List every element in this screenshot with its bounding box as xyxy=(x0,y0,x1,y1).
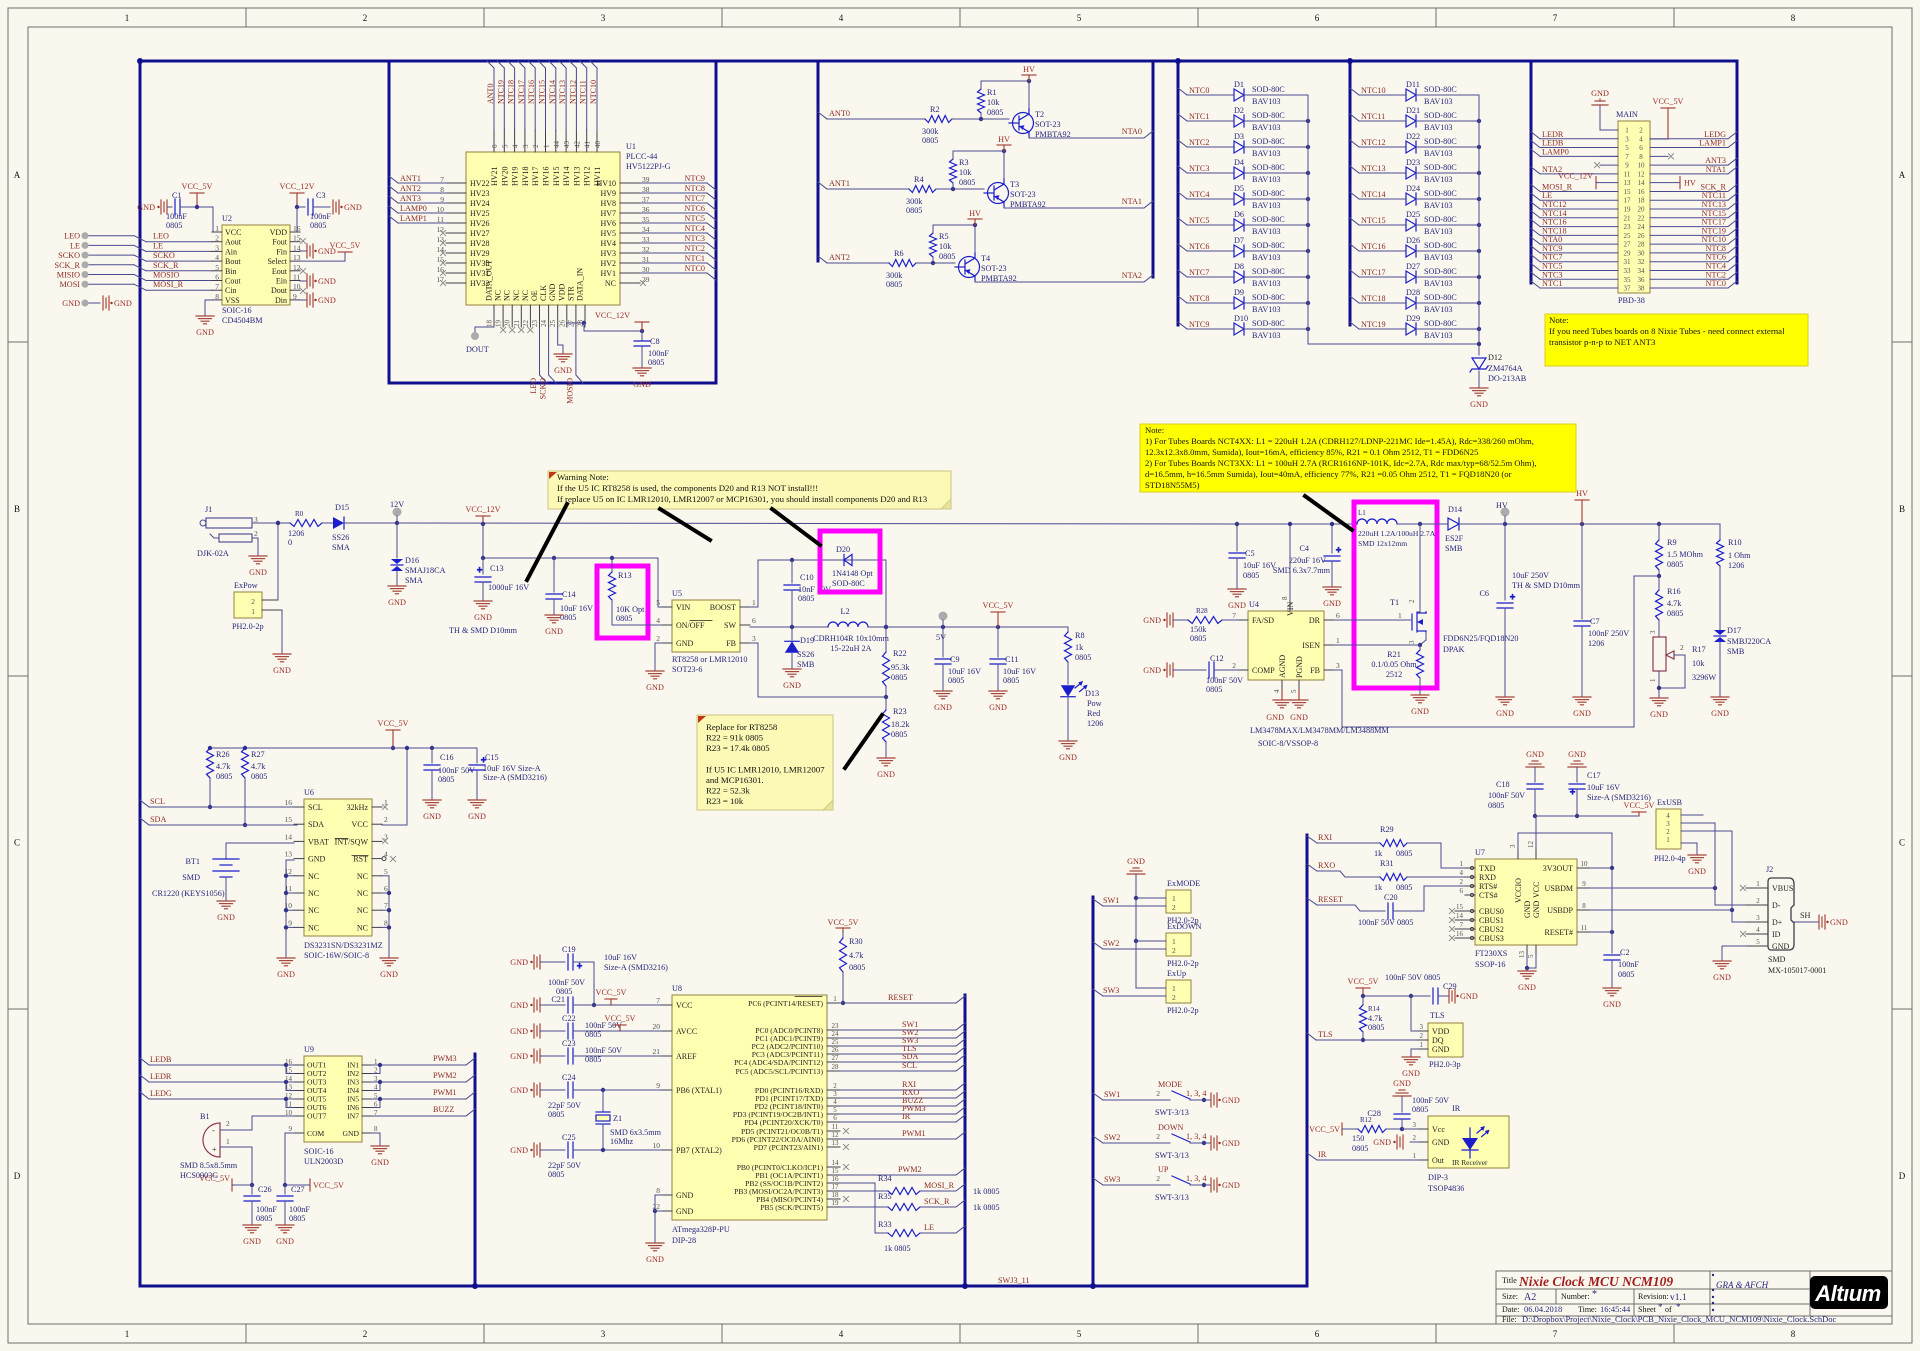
U6 INT RST NC xyxy=(382,838,387,843)
svg-text:NTC12: NTC12 xyxy=(1361,138,1386,147)
wire DR to gate xyxy=(1334,619,1412,621)
svg-text:10uF 16V: 10uF 16V xyxy=(1587,783,1620,792)
svg-text:ANT3: ANT3 xyxy=(400,194,421,203)
svg-text:SH: SH xyxy=(1800,911,1811,920)
svg-text:T4: T4 xyxy=(981,254,990,263)
svg-text:GND: GND xyxy=(1688,867,1706,876)
svg-text:C1: C1 xyxy=(172,191,182,200)
svg-text:GND: GND xyxy=(1059,753,1077,762)
svg-text:B1: B1 xyxy=(200,1112,210,1121)
svg-text:NTC2: NTC2 xyxy=(1706,270,1726,279)
svg-text:NTC4: NTC4 xyxy=(1706,261,1726,270)
svg-text:+: + xyxy=(577,961,582,971)
svg-text:5: 5 xyxy=(1625,144,1629,152)
svg-text:C11: C11 xyxy=(1005,655,1018,664)
inductor L2 CDRH104R xyxy=(813,607,889,653)
svg-text:HV16: HV16 xyxy=(542,166,551,186)
svg-text:SDA: SDA xyxy=(902,1052,918,1061)
svg-text:C5: C5 xyxy=(1245,549,1255,558)
svg-text:VCC_5V: VCC_5V xyxy=(1653,97,1684,106)
svg-text:GND: GND xyxy=(1290,713,1308,722)
svg-text:SOD-80C: SOD-80C xyxy=(1252,267,1285,276)
svg-text:NTC14: NTC14 xyxy=(548,80,557,104)
wire HV rail xyxy=(1459,522,1720,526)
svg-text:T3: T3 xyxy=(1010,180,1019,189)
resistor R21 0.1/0.05 Ohm xyxy=(1371,645,1429,716)
svg-text:SMA: SMA xyxy=(405,576,423,585)
svg-text:4: 4 xyxy=(1756,926,1760,934)
title block xyxy=(1496,1271,1892,1324)
wire ExPow pin2 to rail xyxy=(276,521,280,600)
svg-text:C6: C6 xyxy=(1479,589,1489,598)
svg-text:Cout: Cout xyxy=(225,277,241,286)
svg-text:0805: 0805 xyxy=(1396,849,1412,858)
svg-text:HV4: HV4 xyxy=(600,239,616,248)
U5 GND pin to ground xyxy=(646,643,664,692)
svg-text:TLS: TLS xyxy=(1430,1011,1445,1020)
svg-text:CBUS3: CBUS3 xyxy=(1479,934,1504,943)
svg-text:LEDG: LEDG xyxy=(1704,130,1726,139)
svg-text:19: 19 xyxy=(495,320,503,328)
svg-text:Size-A (SMD3216): Size-A (SMD3216) xyxy=(604,963,668,972)
svg-text:0805: 0805 xyxy=(891,730,907,739)
svg-text:0: 0 xyxy=(288,538,292,547)
svg-text:41: 41 xyxy=(584,141,592,149)
svg-text:D29: D29 xyxy=(1406,314,1420,323)
section border top edge xyxy=(140,60,1737,63)
svg-text:NTC9: NTC9 xyxy=(1189,320,1209,329)
svg-text:1N4148 Opt: 1N4148 Opt xyxy=(832,569,873,578)
svg-text:Ein: Ein xyxy=(276,277,287,286)
svg-text:GND: GND xyxy=(510,1146,528,1155)
svg-text:GND: GND xyxy=(1573,709,1591,718)
svg-text:RXD: RXD xyxy=(1479,873,1496,882)
svg-text:GND: GND xyxy=(62,299,80,308)
svg-text:+: + xyxy=(477,565,482,575)
net NTA0 output xyxy=(1029,127,1153,138)
wire rail drop to C13 row xyxy=(481,524,658,560)
svg-text:D-: D- xyxy=(1772,901,1781,910)
svg-text:30: 30 xyxy=(1638,249,1646,257)
svg-text:HV6: HV6 xyxy=(600,219,616,228)
svg-text:NTC8: NTC8 xyxy=(1706,244,1726,253)
svg-text:2: 2 xyxy=(1639,127,1643,135)
crystal Z1 16MHz xyxy=(596,1090,662,1150)
svg-text:13: 13 xyxy=(832,1139,840,1147)
svg-text:NTC7: NTC7 xyxy=(1189,268,1209,277)
svg-text:1206: 1206 xyxy=(288,529,304,538)
svg-text:SW1: SW1 xyxy=(1104,1090,1120,1099)
svg-text:MX-105017-0001: MX-105017-0001 xyxy=(1768,966,1826,975)
svg-text:100nF: 100nF xyxy=(310,212,331,221)
MCU bus border xyxy=(964,995,967,1286)
svg-text:HV5122PJ-G: HV5122PJ-G xyxy=(626,162,671,171)
svg-text:1206: 1206 xyxy=(1588,639,1604,648)
svg-text:HV24: HV24 xyxy=(470,199,490,208)
svg-text:GND: GND xyxy=(1650,710,1668,719)
svg-text:PH2.0-3p: PH2.0-3p xyxy=(1429,1060,1461,1069)
svg-text:5: 5 xyxy=(215,263,219,272)
svg-text:A: A xyxy=(1899,170,1906,180)
svg-text:R22 = 91k 0805: R22 = 91k 0805 xyxy=(706,733,764,743)
svg-text:BT1: BT1 xyxy=(185,857,200,866)
svg-text:PLCC-44: PLCC-44 xyxy=(626,152,657,161)
svg-text:C9: C9 xyxy=(950,655,960,664)
svg-text:0805: 0805 xyxy=(959,178,975,187)
svg-text:PWM1: PWM1 xyxy=(902,1129,926,1138)
svg-text:GND: GND xyxy=(676,639,694,648)
diode matrix block borders xyxy=(1178,61,1350,325)
svg-text:8: 8 xyxy=(1281,596,1289,600)
svg-text:1: 1 xyxy=(1420,1041,1424,1049)
note sticky - warning RT8258 xyxy=(548,471,951,509)
svg-text:CDRH104R 10x10mm: CDRH104R 10x10mm xyxy=(813,634,889,643)
svg-text:ZM4764A: ZM4764A xyxy=(1488,364,1523,373)
svg-text:0805: 0805 xyxy=(256,1214,272,1223)
wire SW rail xyxy=(750,625,828,629)
svg-text:RXO: RXO xyxy=(1318,861,1335,870)
svg-text:SOD-80C: SOD-80C xyxy=(1424,189,1457,198)
svg-text:0805: 0805 xyxy=(438,775,454,784)
capacitor C22 xyxy=(510,1014,594,1039)
svg-text:BAV103: BAV103 xyxy=(1252,279,1281,288)
section border bottom edge xyxy=(140,1285,1306,1288)
power port HV (T4) xyxy=(968,209,982,225)
svg-text:D23: D23 xyxy=(1406,158,1420,167)
svg-text:GND: GND xyxy=(380,970,398,979)
svg-text:7: 7 xyxy=(1460,921,1464,929)
net TLS wire (U8) xyxy=(840,1044,965,1054)
svg-text:HV17: HV17 xyxy=(531,166,540,186)
net SCL wire (U8) xyxy=(840,1061,965,1071)
svg-text:9: 9 xyxy=(288,918,292,927)
power port VCC_5V (TLS) xyxy=(1348,977,1379,998)
svg-text:NC: NC xyxy=(357,906,368,915)
svg-text:Revision:: Revision: xyxy=(1638,1292,1669,1301)
svg-text:HV14: HV14 xyxy=(562,166,571,186)
diode column 2 (D11-D29) xyxy=(1350,80,1481,355)
svg-text:T2: T2 xyxy=(1035,110,1044,119)
svg-text:NTC16: NTC16 xyxy=(1542,218,1567,227)
svg-text:15: 15 xyxy=(285,815,293,824)
svg-text:1k: 1k xyxy=(1374,883,1383,892)
svg-text:1: 1 xyxy=(125,13,130,23)
diode D14 ES2F SMB xyxy=(1445,505,1464,553)
svg-text:NTC4: NTC4 xyxy=(1189,190,1209,199)
svg-text:DPAK: DPAK xyxy=(1443,645,1465,654)
svg-text:NTA0: NTA0 xyxy=(1122,127,1142,136)
svg-text:D20: D20 xyxy=(836,545,850,554)
svg-text:CTS#: CTS# xyxy=(1479,891,1498,900)
svg-text:TXD: TXD xyxy=(1479,864,1496,873)
svg-text:GND: GND xyxy=(1568,750,1586,759)
svg-text:D16: D16 xyxy=(405,556,419,565)
resistor R33 + net LE xyxy=(840,1183,965,1253)
svg-text:2: 2 xyxy=(1156,1174,1160,1183)
svg-text:SS26: SS26 xyxy=(797,650,814,659)
svg-text:15: 15 xyxy=(1624,188,1632,196)
svg-text:D27: D27 xyxy=(1406,262,1420,271)
svg-text:220uH 1.2A/100uH 2.7A: 220uH 1.2A/100uH 2.7A xyxy=(1358,529,1436,538)
LED D13 Pow Red xyxy=(1059,681,1103,762)
svg-text:38: 38 xyxy=(1638,285,1646,293)
svg-text:GND: GND xyxy=(318,296,336,305)
svg-text:2: 2 xyxy=(1666,828,1670,836)
svg-text:GND: GND xyxy=(676,1191,694,1200)
svg-text:SCL: SCL xyxy=(150,797,165,806)
svg-text:SOD-80C: SOD-80C xyxy=(1252,137,1285,146)
ExUSB pin2 wire xyxy=(1681,831,1732,910)
svg-text:2: 2 xyxy=(1680,643,1684,652)
svg-text:32kHz: 32kHz xyxy=(347,803,369,812)
note sticky - tubes boards ANT3 xyxy=(1545,314,1808,366)
svg-text:Cin: Cin xyxy=(225,286,237,295)
svg-text:Fout: Fout xyxy=(272,238,287,247)
switch SW3 UP SWT-3/13 xyxy=(1093,1165,1240,1202)
svg-text:If U5 IC LMR12010, LMR12007: If U5 IC LMR12010, LMR12007 xyxy=(706,764,825,774)
svg-text:0805: 0805 xyxy=(1206,685,1222,694)
diode D25 xyxy=(1350,210,1479,236)
svg-text:SMD 6.3x7.7mm: SMD 6.3x7.7mm xyxy=(1273,566,1331,575)
net PWM2 wire (U8) xyxy=(840,1165,965,1175)
svg-text:GND: GND xyxy=(1402,1069,1420,1078)
VCC rail to U7 xyxy=(1518,816,1639,868)
svg-text:NC: NC xyxy=(503,290,512,301)
capacitor C25 xyxy=(510,1133,594,1158)
svg-text:D2: D2 xyxy=(1234,106,1244,115)
svg-text:VCC_5V: VCC_5V xyxy=(983,601,1014,610)
svg-text:SMD: SMD xyxy=(1768,955,1786,964)
svg-text:LAMP0: LAMP0 xyxy=(400,204,427,213)
svg-text:C21: C21 xyxy=(551,995,565,1004)
svg-text:ANT2: ANT2 xyxy=(829,253,850,262)
svg-text:NTC1: NTC1 xyxy=(685,254,705,263)
U9 COM wire xyxy=(283,1133,294,1187)
svg-text:6: 6 xyxy=(752,616,756,625)
svg-text:C18: C18 xyxy=(1496,780,1510,789)
svg-text:D13: D13 xyxy=(1085,689,1099,698)
svg-text:*: * xyxy=(1658,1302,1663,1312)
svg-text:PH2.0-2p: PH2.0-2p xyxy=(1167,1006,1199,1015)
wire L1 to T1 drain and D14 xyxy=(1397,522,1448,526)
USB block border xyxy=(1306,835,1309,1286)
svg-text:SOD-80C: SOD-80C xyxy=(1252,215,1285,224)
svg-text:NC: NC xyxy=(494,290,503,301)
svg-text:1: 1 xyxy=(1398,611,1402,620)
svg-text:10: 10 xyxy=(653,1141,661,1150)
diode D29 xyxy=(1350,314,1479,340)
svg-text:10uF 16V Size-A: 10uF 16V Size-A xyxy=(483,764,541,773)
svg-text:10uF 16V: 10uF 16V xyxy=(604,953,637,962)
HV5122 block border xyxy=(389,61,716,383)
svg-text:VCC_5V: VCC_5V xyxy=(1624,801,1655,810)
svg-text:4: 4 xyxy=(656,616,660,625)
svg-text:10: 10 xyxy=(1581,860,1589,868)
svg-text:GND: GND xyxy=(554,366,572,375)
svg-text:TSOP4836: TSOP4836 xyxy=(1428,1184,1464,1193)
svg-text:D+: D+ xyxy=(1772,918,1783,927)
resistor R22 95.3k xyxy=(883,627,911,699)
diode D19 SS26 SMB xyxy=(783,627,815,690)
svg-text:3: 3 xyxy=(833,1090,837,1098)
svg-text:NTC12: NTC12 xyxy=(568,80,577,104)
net ANT1 input xyxy=(818,179,909,189)
U8 NC pin x marks xyxy=(843,1128,848,1133)
pointer line from replace note xyxy=(845,715,882,768)
svg-text:D: D xyxy=(1899,1171,1906,1181)
svg-text:LE: LE xyxy=(924,1223,934,1232)
svg-text:SCKO: SCKO xyxy=(153,251,175,260)
svg-text:NTC18: NTC18 xyxy=(507,80,516,104)
capacitor C7 xyxy=(1573,524,1629,718)
svg-text:0805: 0805 xyxy=(289,1214,305,1223)
diode D9 xyxy=(1178,288,1308,314)
svg-text:Sheet: Sheet xyxy=(1638,1305,1657,1314)
svg-text:Size:: Size: xyxy=(1502,1292,1518,1301)
svg-text:R29: R29 xyxy=(1380,825,1394,834)
svg-text:CLK: CLK xyxy=(539,285,548,301)
svg-text:UP: UP xyxy=(1158,1165,1169,1174)
svg-text:19: 19 xyxy=(832,1199,840,1207)
svg-text:2: 2 xyxy=(1172,993,1176,1002)
svg-text:PC6 (PCINT14/RESET): PC6 (PCINT14/RESET) xyxy=(748,999,823,1008)
svg-text:GND: GND xyxy=(1532,900,1541,918)
svg-text:16: 16 xyxy=(1456,930,1464,938)
svg-text:GND: GND xyxy=(548,283,557,301)
svg-text:300k: 300k xyxy=(906,197,923,206)
svg-text:9: 9 xyxy=(656,1081,660,1090)
capacitor C28 xyxy=(1367,1079,1449,1129)
svg-text:GND: GND xyxy=(1711,709,1729,718)
connector ExMODE PH2.0-2p xyxy=(1093,879,1200,925)
Altium logo xyxy=(1810,1276,1888,1309)
svg-text:COMP: COMP xyxy=(1252,666,1275,675)
svg-text:1: 1 xyxy=(251,607,255,616)
svg-text:1: 1 xyxy=(1460,860,1464,868)
resistor R16 4.7k xyxy=(1656,576,1684,636)
power port VCC_5V (U8 AVCC) xyxy=(573,1014,662,1031)
svg-text:NTA1: NTA1 xyxy=(1122,197,1142,206)
PBD-38 pin7/8 stubs xyxy=(1600,154,1674,159)
resistor R14 4.7k xyxy=(1360,996,1385,1042)
svg-text:D19: D19 xyxy=(800,636,814,645)
PWM bus border xyxy=(474,1054,477,1286)
svg-text:220uF 16V: 220uF 16V xyxy=(1289,556,1326,565)
IR GND tap xyxy=(1373,1135,1418,1149)
net SW3 wire (U8) xyxy=(840,1036,965,1046)
svg-text:DIP-3: DIP-3 xyxy=(1428,1173,1448,1182)
svg-text:IR: IR xyxy=(1318,1150,1327,1159)
svg-text:9: 9 xyxy=(1582,880,1586,888)
svg-text:150: 150 xyxy=(1352,1134,1364,1143)
svg-text:100nF: 100nF xyxy=(256,1205,277,1214)
svg-text:2: 2 xyxy=(1408,599,1416,603)
svg-text:Out: Out xyxy=(1432,1156,1445,1165)
svg-text:DJK-02A: DJK-02A xyxy=(197,549,229,558)
svg-text:NTC18: NTC18 xyxy=(1542,226,1567,235)
svg-text:D24: D24 xyxy=(1406,184,1420,193)
svg-text:Warning Note:: Warning Note: xyxy=(557,472,609,482)
svg-text:SMD: SMD xyxy=(182,873,200,882)
net ANT0 input xyxy=(818,109,925,119)
U1 STR to MOSIO xyxy=(566,327,584,404)
power port VCC_5V (5V rail) xyxy=(983,601,1014,627)
capacitor C24 xyxy=(510,1073,594,1098)
diode D5 xyxy=(1178,184,1308,210)
resistor R2 300k xyxy=(922,105,952,145)
svg-text:28: 28 xyxy=(1638,241,1646,249)
svg-text:17: 17 xyxy=(832,1183,840,1191)
svg-text:25: 25 xyxy=(549,320,557,328)
svg-text:ExUp: ExUp xyxy=(1167,969,1186,978)
svg-text:GND: GND xyxy=(276,1237,294,1246)
capacitor C26 xyxy=(243,1185,277,1246)
svg-text:31: 31 xyxy=(1624,258,1632,266)
svg-text:ES2F: ES2F xyxy=(1445,534,1464,543)
svg-text:SOT-23: SOT-23 xyxy=(1010,190,1036,199)
svg-text:ATmega328P-PU: ATmega328P-PU xyxy=(672,1225,730,1234)
svg-text:VCC_12V: VCC_12V xyxy=(595,311,630,320)
svg-text:L1: L1 xyxy=(1358,509,1366,517)
inductor L1 xyxy=(1357,509,1436,548)
svg-text:ANT3: ANT3 xyxy=(1705,156,1726,165)
svg-text:BAV103: BAV103 xyxy=(1252,201,1281,210)
svg-text:LEDB: LEDB xyxy=(1542,139,1564,148)
svg-text:3V3OUT: 3V3OUT xyxy=(1543,864,1573,873)
svg-text:Aout: Aout xyxy=(225,238,242,247)
svg-text:VCC_5V: VCC_5V xyxy=(378,719,409,728)
svg-text:BAV103: BAV103 xyxy=(1252,227,1281,236)
svg-text:1: 1 xyxy=(226,1137,230,1146)
svg-text:R22: R22 xyxy=(893,649,907,658)
svg-text:100nF 50V 0805: 100nF 50V 0805 xyxy=(1385,973,1440,982)
svg-text:SOD-80C: SOD-80C xyxy=(1252,319,1285,328)
svg-text:4: 4 xyxy=(833,1098,837,1106)
wire base ANT1 xyxy=(936,188,984,190)
svg-text:R5: R5 xyxy=(939,232,949,241)
net IR wire xyxy=(1307,1150,1418,1160)
svg-text:FB: FB xyxy=(1310,666,1320,675)
svg-text:10: 10 xyxy=(293,282,301,291)
svg-text:0805: 0805 xyxy=(166,221,182,230)
svg-text:3: 3 xyxy=(601,1329,606,1339)
svg-text:7: 7 xyxy=(656,996,660,1005)
connector ExDOWN PH2.0-2p xyxy=(1093,922,1202,968)
svg-text:13: 13 xyxy=(1518,951,1526,959)
svg-text:HV: HV xyxy=(1576,489,1588,498)
svg-text:GND: GND xyxy=(196,328,214,337)
svg-text:U1: U1 xyxy=(626,142,636,151)
svg-text:8: 8 xyxy=(215,292,219,301)
connector ExUSB PH2.0-4p xyxy=(1654,798,1686,863)
transistor T4 PMBTA92 xyxy=(955,253,1017,283)
power port VCC_12V (PBD-38 pin13) xyxy=(1558,172,1618,189)
svg-text:SOIC-16W/SOIC-8: SOIC-16W/SOIC-8 xyxy=(304,951,369,960)
svg-text:SOD-80C: SOD-80C xyxy=(1252,85,1285,94)
B1 pin2 to OUT7 xyxy=(252,1116,294,1130)
svg-text:VCC_5V: VCC_5V xyxy=(605,1014,636,1023)
svg-text:20: 20 xyxy=(504,320,512,328)
svg-text:GND: GND xyxy=(273,666,291,675)
wire C1 to U2 VCC xyxy=(213,207,222,232)
svg-text:D17: D17 xyxy=(1727,626,1741,635)
svg-text:STR: STR xyxy=(566,286,575,301)
svg-text:11: 11 xyxy=(1624,170,1631,178)
net ANT2 input xyxy=(818,253,889,263)
svg-text:5: 5 xyxy=(1290,689,1298,693)
svg-text:150k: 150k xyxy=(1190,625,1207,634)
U1 DOUT node xyxy=(466,327,494,354)
